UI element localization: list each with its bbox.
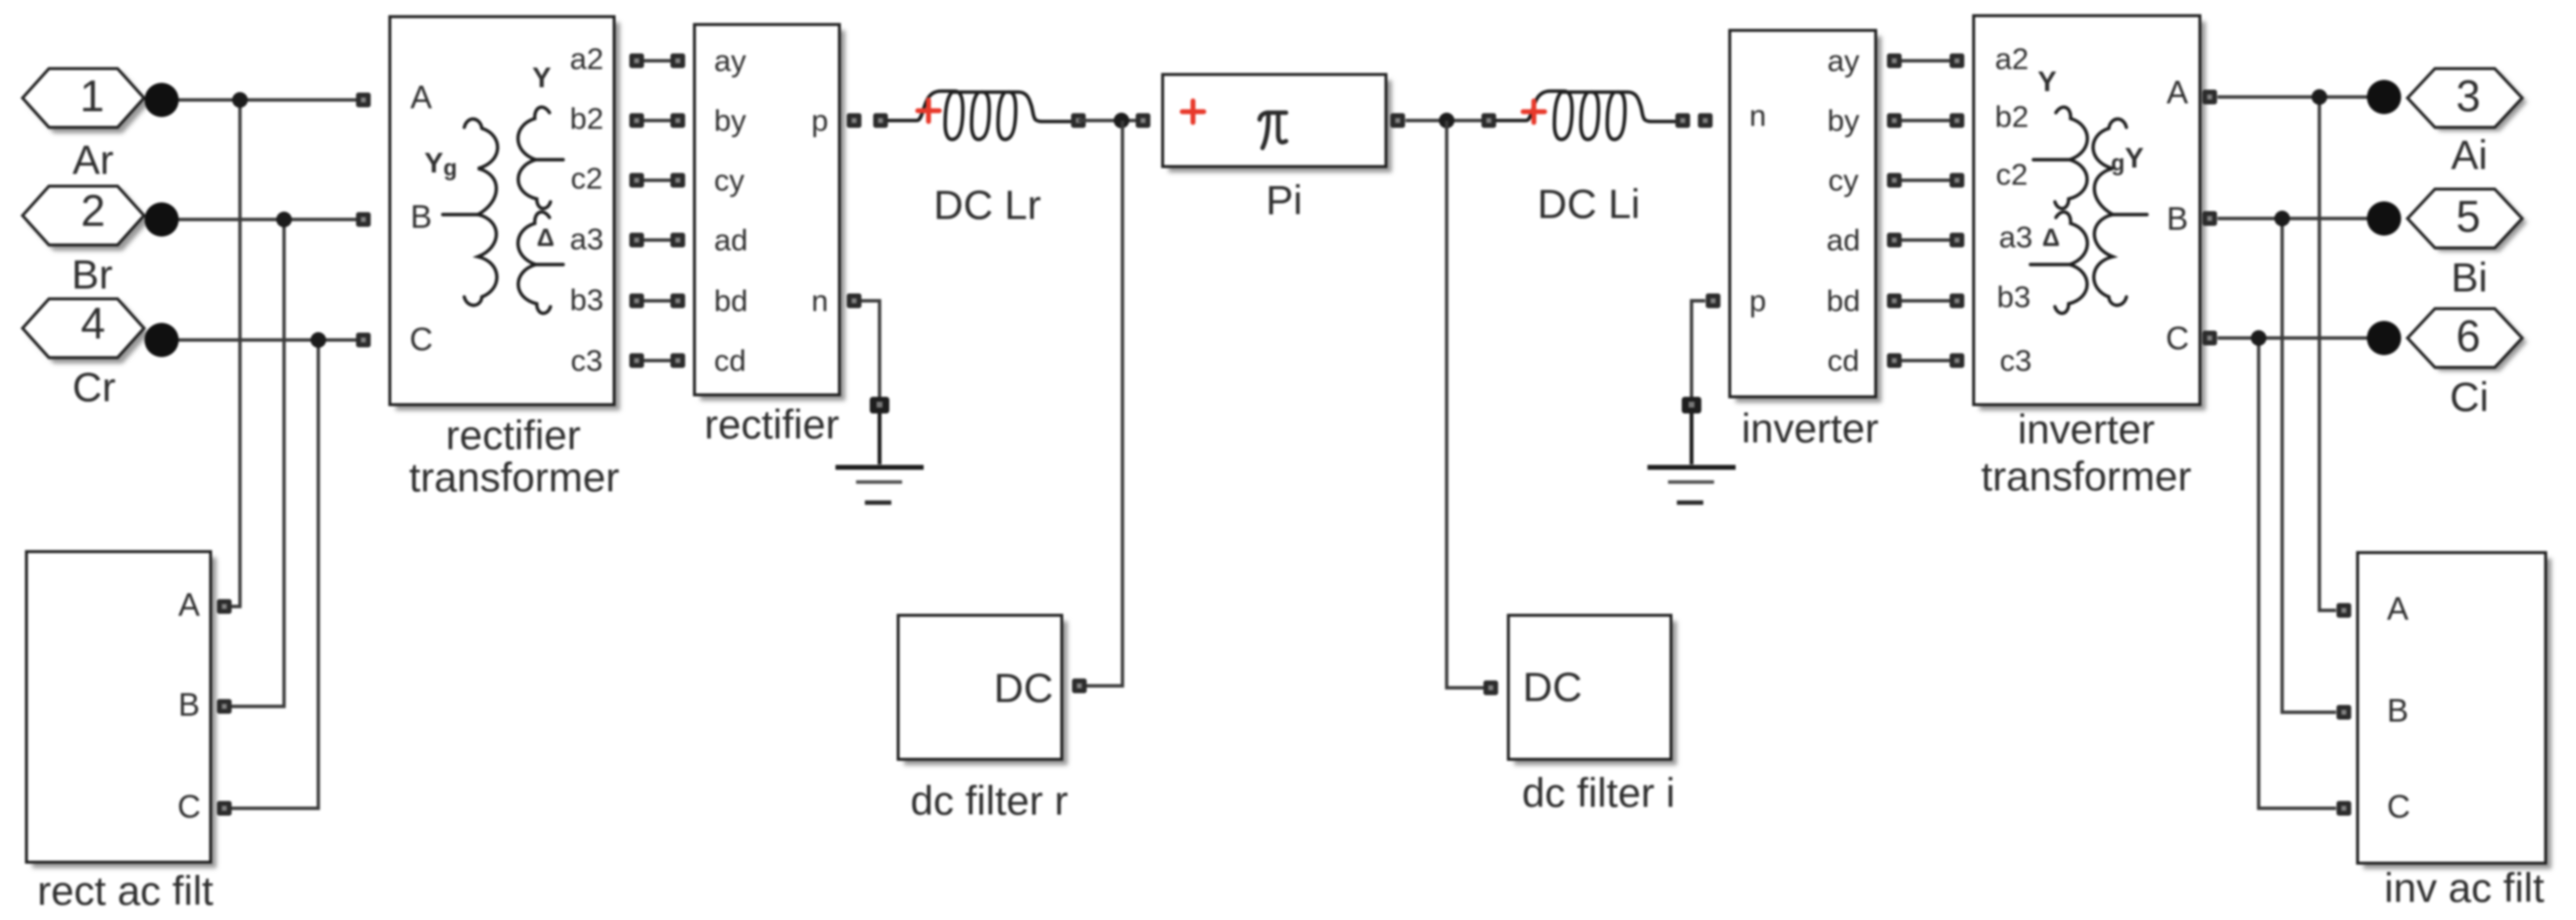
port square DC Li right terminal: [1676, 114, 1691, 128]
caption inverter: [1741, 406, 1879, 452]
junction node B right: [2274, 211, 2290, 226]
vertical wire to dc filter r: [1083, 121, 1122, 686]
wire branch C down to inv ac filt: [2259, 338, 2336, 808]
wire inverter p to ground: [1692, 301, 1705, 398]
svg-text:cy: cy: [714, 164, 745, 198]
terminal dot port 5: [2367, 202, 2402, 236]
svg-text:bd: bd: [1827, 284, 1860, 318]
wire cy-c2: [1894, 178, 1957, 181]
wire c3-cd: [637, 359, 678, 362]
block Pi section: [1163, 74, 1392, 172]
label DC Lr: [933, 182, 1041, 228]
svg-text:rect ac filt: rect ac filt: [37, 868, 214, 914]
port square DC Li left terminal: [1482, 114, 1497, 128]
winding primary Yg inverter transformer: [2093, 119, 2147, 305]
inductor DC Lr: [888, 91, 1071, 139]
junction dc filter r tap: [1114, 113, 1129, 128]
label Cr: [72, 364, 116, 411]
terminal dot port 6: [2367, 321, 2402, 356]
wire a2-ay: [637, 59, 678, 62]
svg-text:B: B: [2167, 201, 2188, 237]
junction node C right: [2251, 330, 2266, 346]
port square transformer B out: [2203, 212, 2218, 226]
svg-text:Δ: Δ: [2042, 224, 2060, 252]
label Br: [72, 252, 113, 298]
svg-text:n: n: [1749, 99, 1766, 133]
port square DC Lr left terminal: [874, 114, 888, 128]
svg-text:inverter: inverter: [2018, 407, 2155, 453]
winding secondary Delta inverter transformer: [2030, 212, 2087, 313]
svg-text:B: B: [410, 199, 432, 235]
port squares transformer out rows: [630, 54, 644, 368]
block dc filter i: [1508, 615, 1677, 765]
terminal dot port 4: [145, 323, 179, 358]
svg-text:Pi: Pi: [1265, 177, 1302, 223]
svg-text:DC: DC: [994, 665, 1054, 711]
svg-text:transformer: transformer: [1981, 454, 2192, 500]
wire branch A down to inv ac filt: [2319, 97, 2336, 610]
wire phase A to port 3: [2218, 95, 2390, 98]
port square transformer B in: [357, 213, 371, 227]
terminal dot port 3: [2367, 80, 2402, 115]
winding secondary Y inverter transformer: [2033, 107, 2087, 208]
port 5 hexagon Bi: [2408, 189, 2527, 252]
port square transformer A in: [357, 93, 371, 108]
port square inv ac filt A: [2337, 604, 2352, 618]
block dc filter r: [898, 615, 1068, 765]
caption dc filter r: [910, 778, 1068, 824]
svg-text:rectifier: rectifier: [704, 402, 839, 448]
svg-text:B: B: [178, 687, 200, 723]
svg-text:A: A: [2387, 591, 2409, 627]
svg-text:5: 5: [2456, 192, 2480, 242]
polarity plus DC Li: [1523, 101, 1545, 122]
wire phase B from port 2 to rectifier transformer: [162, 218, 358, 220]
svg-text:a3: a3: [1999, 220, 2032, 255]
svg-text:transformer: transformer: [409, 455, 620, 501]
svg-text:A: A: [178, 587, 200, 623]
caption inverter transformer: [1981, 407, 2192, 500]
wire branch B down to rect ac filt: [224, 219, 284, 706]
label Bi: [2451, 255, 2487, 301]
wire rectifier n to ground: [856, 301, 880, 398]
winding primary Yg rectifier transformer: [443, 119, 498, 305]
port square rectifier n: [847, 294, 862, 309]
port squares inverter transformer in rows: [1950, 54, 1965, 368]
svg-text:by: by: [714, 104, 746, 138]
svg-text:A: A: [2167, 74, 2188, 111]
junction node A right: [2312, 89, 2327, 105]
port 2 hexagon Br: [23, 186, 149, 252]
svg-text:ay: ay: [1828, 44, 1860, 78]
pi symbol: [1260, 113, 1286, 148]
polarity plus Pi: [1182, 101, 1204, 122]
svg-text:b3: b3: [1997, 280, 2030, 315]
port square inverter p: [1706, 294, 1721, 309]
wire phase B to port 5: [2218, 217, 2390, 219]
svg-text:a2: a2: [570, 42, 603, 76]
winding secondary Y rectifier transformer: [518, 107, 563, 208]
svg-text:ad: ad: [1827, 223, 1860, 258]
wire b3-bd: [637, 299, 678, 302]
port square Pi output: [1391, 114, 1406, 128]
svg-text:Bi: Bi: [2451, 255, 2487, 301]
svg-text:c2: c2: [571, 162, 603, 196]
svg-text:4: 4: [80, 299, 105, 349]
port square Pi input: [1136, 114, 1151, 128]
svg-text:b2: b2: [570, 102, 603, 136]
svg-text:a3: a3: [570, 222, 603, 257]
svg-text:b3: b3: [570, 283, 603, 317]
wire b2-by: [637, 119, 678, 121]
port 3 hexagon Ai: [2408, 69, 2527, 131]
svg-text:Ci: Ci: [2450, 374, 2489, 420]
svg-text:ad: ad: [714, 223, 747, 258]
port square dc filter r: [1073, 679, 1087, 694]
svg-text:a2: a2: [1995, 42, 2028, 76]
polarity plus DC Lr: [918, 100, 939, 121]
label DC Li: [1537, 181, 1640, 227]
wire bd-b3: [1894, 299, 1957, 302]
wire cd-c3: [1894, 359, 1957, 362]
svg-text:2: 2: [80, 186, 105, 236]
svg-text:Y: Y: [2037, 67, 2056, 98]
svg-text:C: C: [2166, 320, 2189, 357]
port 1 hexagon Ar: [23, 69, 149, 133]
svg-text:C: C: [177, 789, 201, 825]
svg-text:cd: cd: [714, 344, 746, 378]
port squares inverter out rows: [1887, 54, 1902, 368]
port square inv ac filt B: [2337, 705, 2352, 720]
svg-text:6: 6: [2456, 312, 2480, 362]
svg-text:C: C: [2387, 789, 2410, 825]
svg-text:cd: cd: [1828, 344, 1860, 378]
svg-text:inverter: inverter: [1741, 406, 1879, 452]
terminal dot port 1: [145, 83, 179, 118]
port square rect ac filt A: [217, 600, 232, 614]
svg-text:C: C: [409, 321, 433, 358]
wire c2-cy: [637, 178, 678, 181]
inductor DC Li: [1497, 91, 1677, 139]
port square rect ac filt B: [217, 700, 232, 714]
caption dc filter i: [1522, 770, 1675, 816]
svg-text:rectifier: rectifier: [446, 412, 581, 459]
svg-text:Y: Y: [532, 63, 550, 94]
svg-text:b2: b2: [1995, 100, 2028, 134]
caption rectifier: [704, 402, 839, 448]
port square rect ac filt C: [217, 801, 232, 816]
wire by-b2: [1894, 119, 1957, 121]
wire branch A down to rect ac filt: [224, 100, 240, 606]
svg-text:ay: ay: [714, 44, 746, 78]
svg-text:cy: cy: [1829, 164, 1860, 198]
svg-text:by: by: [1828, 104, 1860, 138]
wire a3-ad: [637, 238, 678, 241]
svg-text:B: B: [2387, 693, 2409, 729]
wire Pi output: [1406, 119, 1489, 121]
terminal dot port 2: [145, 203, 179, 237]
block inv ac filt: [2358, 553, 2552, 869]
block inverter transformer: [1974, 16, 2206, 411]
svg-text:c3: c3: [2000, 344, 2032, 378]
ground inverter side: [1647, 397, 1736, 503]
port square transformer C in: [357, 333, 371, 348]
wire phase C to port 6: [2218, 336, 2390, 339]
wire branch B down to inv ac filt: [2282, 218, 2336, 712]
label Ar: [72, 137, 114, 183]
port square rectifier p: [847, 114, 862, 128]
wire ay-a2: [1894, 59, 1957, 62]
svg-text:c3: c3: [571, 344, 603, 378]
port 4 hexagon Cr: [23, 299, 149, 364]
junction node B: [276, 212, 292, 227]
svg-text:Br: Br: [72, 252, 113, 298]
port square transformer A out: [2203, 90, 2218, 105]
caption rect ac filt: [37, 868, 214, 914]
svg-text:Ar: Ar: [72, 137, 114, 183]
svg-text:n: n: [811, 284, 828, 318]
junction dc filter i tap: [1439, 113, 1455, 128]
block rectifier transformer: [390, 17, 620, 411]
port square inv ac filt C: [2337, 801, 2352, 816]
svg-text:inv ac filt: inv ac filt: [2384, 865, 2545, 911]
wire phase A from port 1 to rectifier transformer: [162, 98, 358, 101]
wire dc line into Pi: [1078, 119, 1143, 121]
vertical wire to dc filter i: [1447, 121, 1485, 688]
caption Pi: [1265, 177, 1302, 223]
label Ai: [2451, 132, 2487, 178]
port square DC Lr right terminal: [1072, 114, 1086, 128]
port squares rectifier in rows: [671, 54, 686, 368]
block rect ac filt: [26, 552, 216, 868]
wire ad-a3: [1894, 238, 1957, 241]
svg-text:dc filter i: dc filter i: [1522, 770, 1675, 816]
svg-text:3: 3: [2456, 72, 2480, 121]
ground rectifier side: [835, 397, 924, 503]
svg-text:p: p: [811, 104, 828, 138]
winding secondary Delta rectifier transformer: [518, 212, 563, 313]
block inverter: [1730, 30, 1882, 403]
svg-text:Δ: Δ: [537, 224, 554, 252]
port square dc filter i: [1484, 681, 1499, 696]
svg-text:c2: c2: [1996, 158, 2028, 192]
wire branch C down to rect ac filt: [224, 340, 318, 808]
port square transformer C out: [2203, 331, 2218, 346]
junction node C: [310, 332, 326, 348]
svg-text:DC: DC: [1523, 664, 1583, 710]
svg-text:DC Li: DC Li: [1537, 181, 1640, 227]
port square inverter n: [1698, 114, 1713, 128]
svg-text:DC Lr: DC Lr: [933, 182, 1041, 228]
svg-text:Ai: Ai: [2451, 132, 2487, 178]
svg-text:1: 1: [79, 72, 104, 121]
svg-text:p: p: [1749, 284, 1766, 318]
caption inv ac filt: [2384, 865, 2545, 911]
svg-text:bd: bd: [714, 284, 747, 318]
port 6 hexagon Ci: [2408, 309, 2527, 371]
wire phase C from port 4 to rectifier transformer: [162, 338, 358, 341]
block rectifier: [694, 24, 845, 401]
caption rectifier transformer: [409, 412, 620, 501]
svg-text:A: A: [410, 79, 432, 116]
svg-text:Cr: Cr: [72, 364, 116, 411]
junction node A: [232, 92, 248, 108]
svg-text:dc filter r: dc filter r: [910, 778, 1068, 824]
label Ci: [2450, 374, 2489, 420]
